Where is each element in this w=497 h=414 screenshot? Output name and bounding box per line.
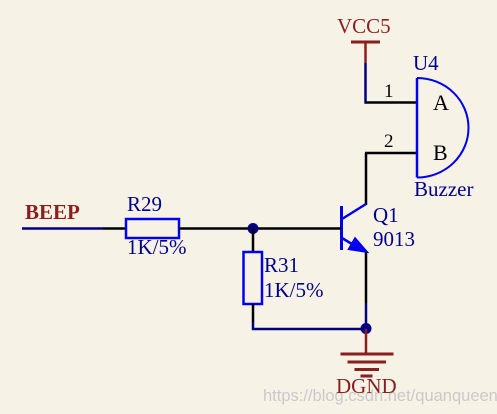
wire	[252, 304, 255, 322]
svg-text:B: B	[433, 140, 448, 165]
wire	[253, 322, 366, 329]
wire	[22, 227, 103, 230]
svg-text:R31: R31	[264, 253, 299, 277]
wire	[365, 153, 368, 205]
wire	[179, 227, 341, 230]
svg-text:1: 1	[384, 81, 394, 102]
wire	[365, 303, 368, 329]
svg-text:VCC5: VCC5	[337, 14, 391, 38]
power symbol VCC5	[337, 14, 391, 63]
svg-text:1K/5%: 1K/5%	[127, 235, 187, 259]
transistor Q1	[342, 204, 369, 253]
ground DGND	[341, 329, 394, 376]
svg-text:1K/5%: 1K/5%	[264, 278, 324, 302]
junction	[361, 323, 372, 334]
svg-text:A: A	[433, 90, 449, 115]
wire	[364, 63, 367, 104]
svg-text:DGND: DGND	[336, 374, 397, 398]
junction	[248, 223, 259, 234]
svg-text:9013: 9013	[373, 227, 415, 251]
wire	[366, 101, 418, 104]
svg-text:BEEP: BEEP	[25, 200, 80, 224]
resistor R31	[244, 252, 263, 304]
svg-text:Q1: Q1	[373, 203, 399, 227]
svg-text:R29: R29	[127, 192, 162, 216]
wire	[365, 252, 368, 303]
wire	[365, 152, 417, 155]
wire	[252, 229, 255, 253]
resistor R29	[126, 219, 179, 238]
svg-text:U4: U4	[413, 51, 439, 75]
wire	[103, 227, 126, 230]
buzzer U4	[417, 78, 469, 178]
svg-text:Buzzer: Buzzer	[414, 177, 473, 201]
svg-text:2: 2	[384, 131, 394, 152]
